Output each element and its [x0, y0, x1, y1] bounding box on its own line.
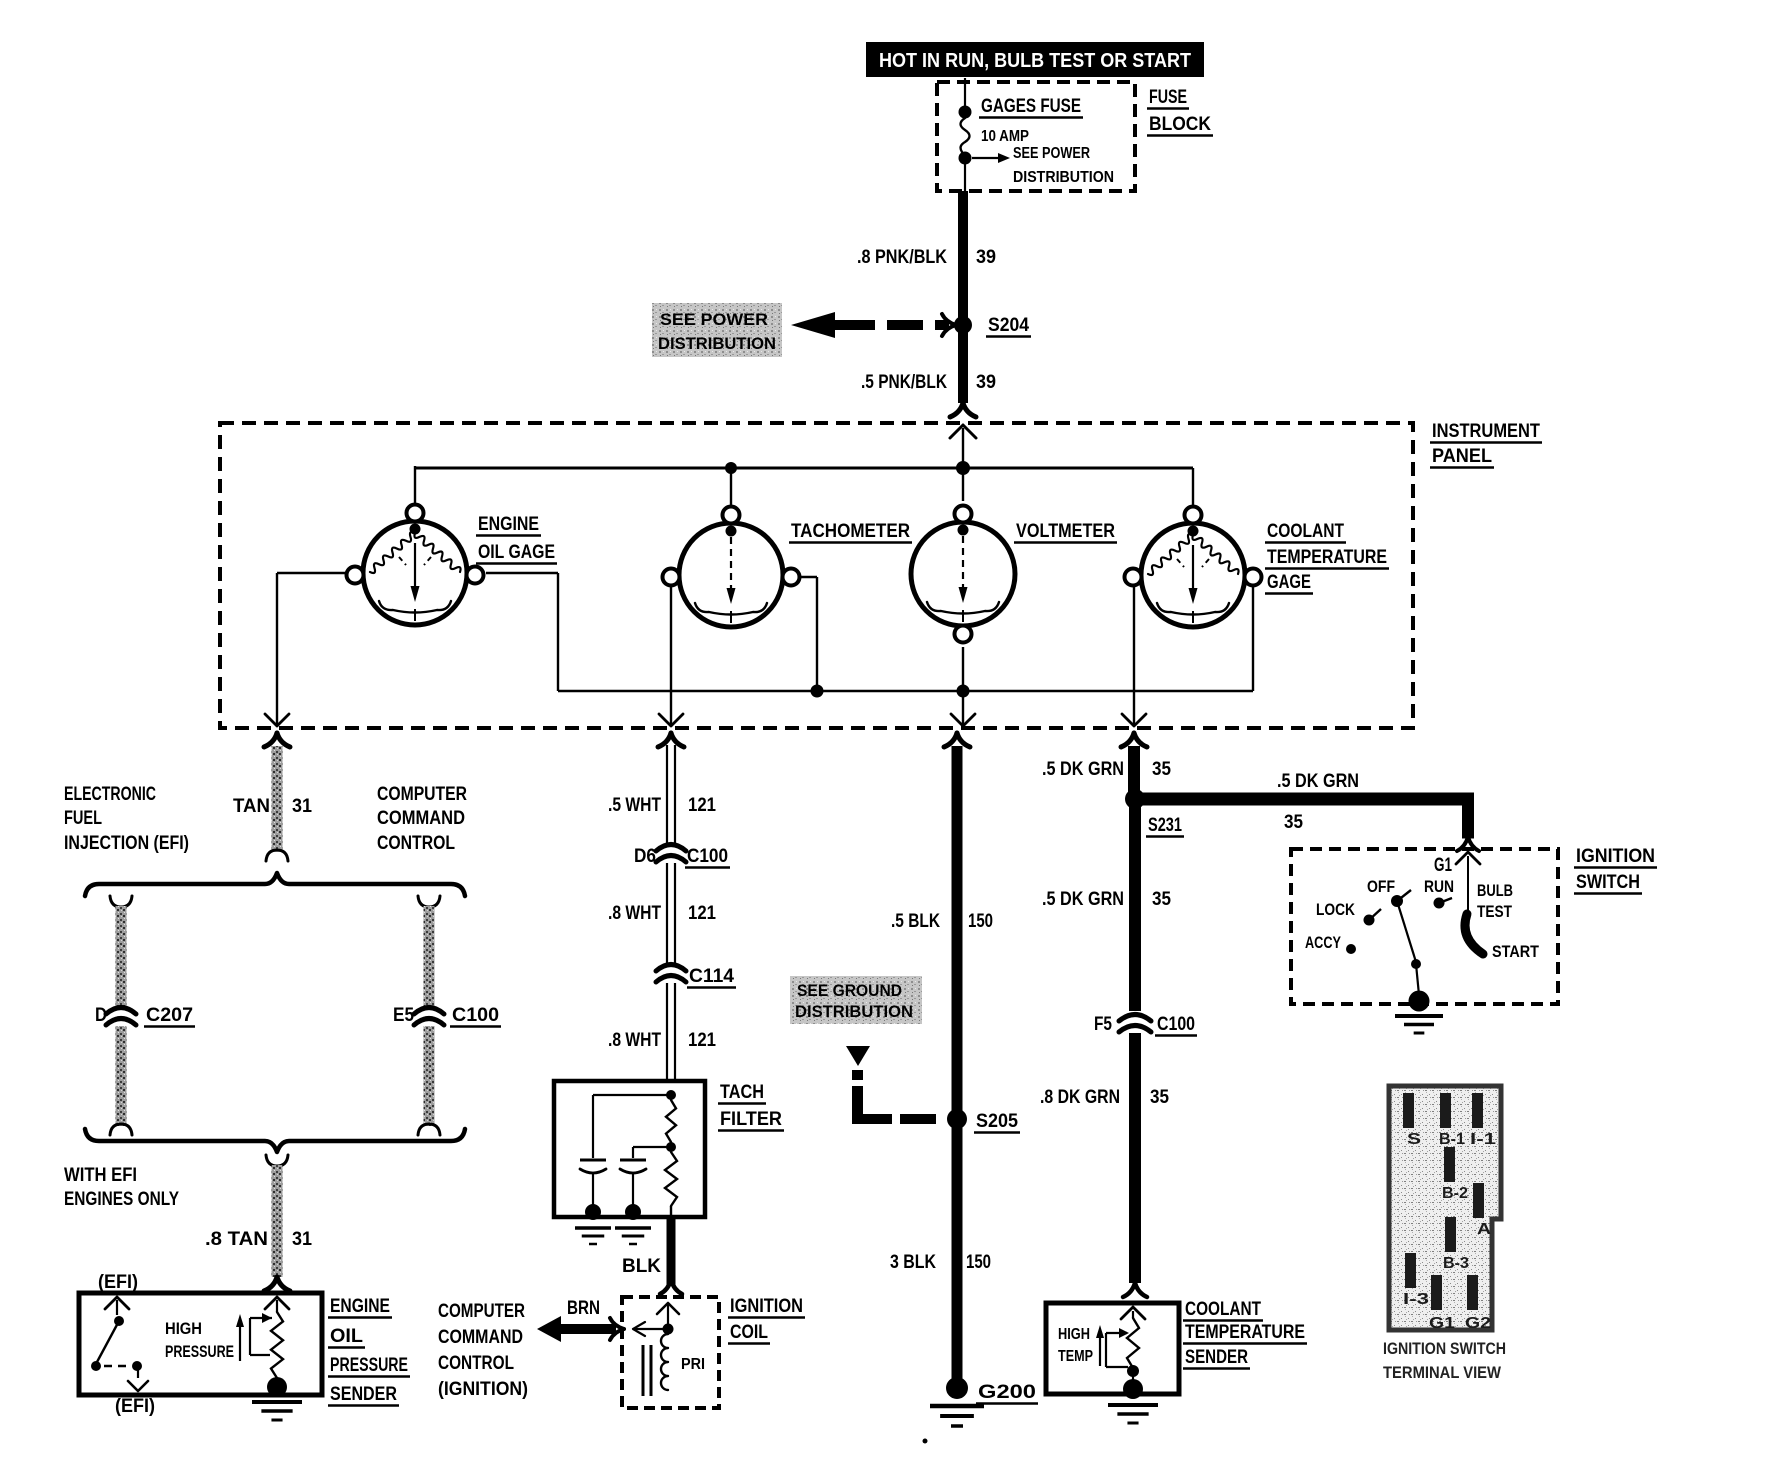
- svg-text:CONTROL: CONTROL: [438, 1353, 514, 1374]
- svg-text:.5 BLK: .5 BLK: [891, 911, 940, 932]
- svg-text:C100: C100: [452, 1005, 499, 1026]
- svg-text:ENGINE: ENGINE: [330, 1296, 390, 1317]
- svg-text:HIGH: HIGH: [165, 1319, 202, 1338]
- svg-text:INJECTION (EFI): INJECTION (EFI): [64, 833, 189, 854]
- svg-text:GAGES FUSE: GAGES FUSE: [981, 96, 1081, 117]
- svg-text:39: 39: [976, 372, 996, 393]
- svg-text:IGNITION: IGNITION: [730, 1296, 803, 1317]
- svg-text:DISTRIBUTION: DISTRIBUTION: [658, 334, 776, 353]
- svg-text:PRI: PRI: [681, 1356, 705, 1373]
- svg-text:COOLANT: COOLANT: [1267, 521, 1344, 542]
- svg-text:PRESSURE: PRESSURE: [165, 1342, 234, 1361]
- svg-text:CONTROL: CONTROL: [377, 833, 455, 854]
- svg-text:C100: C100: [687, 846, 728, 867]
- svg-text:VOLTMETER: VOLTMETER: [1016, 521, 1115, 542]
- svg-text:.5 DK GRN: .5 DK GRN: [1277, 771, 1359, 792]
- svg-text:121: 121: [688, 795, 716, 816]
- svg-text:G200: G200: [978, 1382, 1036, 1403]
- svg-text:ENGINE: ENGINE: [478, 514, 539, 535]
- svg-text:TACHOMETER: TACHOMETER: [791, 521, 910, 542]
- svg-text:.8 WHT: .8 WHT: [608, 1030, 661, 1051]
- svg-text:121: 121: [688, 1030, 716, 1051]
- svg-text:OIL: OIL: [330, 1326, 363, 1347]
- svg-text:150: 150: [966, 1252, 991, 1273]
- svg-text:IGNITION SWITCH: IGNITION SWITCH: [1383, 1339, 1506, 1358]
- svg-text:HOT IN RUN, BULB TEST OR STAR: HOT IN RUN, BULB TEST OR START: [879, 50, 1191, 72]
- svg-text:B-3: B-3: [1443, 1255, 1469, 1272]
- svg-text:I-1: I-1: [1470, 1131, 1496, 1148]
- svg-text:SWITCH: SWITCH: [1576, 872, 1640, 893]
- svg-text:INSTRUMENT: INSTRUMENT: [1432, 421, 1540, 442]
- svg-text:TAN: TAN: [233, 796, 270, 817]
- svg-text:OFF: OFF: [1367, 877, 1395, 896]
- svg-text:TERMINAL VIEW: TERMINAL VIEW: [1383, 1363, 1502, 1382]
- svg-text:F5: F5: [1094, 1014, 1112, 1035]
- svg-text:35: 35: [1152, 889, 1171, 910]
- svg-text:35: 35: [1150, 1087, 1169, 1108]
- svg-text:FUSE: FUSE: [1149, 87, 1187, 108]
- svg-text:39: 39: [976, 247, 996, 268]
- svg-text:C207: C207: [146, 1005, 193, 1026]
- svg-text:C100: C100: [1157, 1014, 1195, 1035]
- svg-text:I-3: I-3: [1403, 1291, 1429, 1308]
- svg-text:BRN: BRN: [567, 1298, 600, 1319]
- svg-text:B-1: B-1: [1439, 1131, 1465, 1148]
- svg-text:BULB: BULB: [1477, 881, 1513, 900]
- svg-text:S: S: [1407, 1131, 1421, 1148]
- svg-text:.8 PNK/BLK: .8 PNK/BLK: [857, 247, 947, 268]
- svg-text:COIL: COIL: [730, 1322, 768, 1343]
- svg-text:LOCK: LOCK: [1316, 900, 1356, 919]
- svg-text:S204: S204: [988, 315, 1029, 336]
- svg-text:G1: G1: [1429, 1315, 1455, 1332]
- svg-text:PRESSURE: PRESSURE: [330, 1355, 408, 1376]
- svg-text:ELECTRONIC: ELECTRONIC: [64, 784, 156, 805]
- svg-text:FILTER: FILTER: [720, 1109, 782, 1130]
- svg-text:.5 DK GRN: .5 DK GRN: [1042, 889, 1124, 910]
- svg-text:121: 121: [688, 903, 716, 924]
- svg-text:BLK: BLK: [622, 1256, 661, 1277]
- svg-text:TEST: TEST: [1477, 902, 1512, 921]
- svg-text:G2: G2: [1465, 1315, 1491, 1332]
- svg-text:(IGNITION): (IGNITION): [438, 1379, 528, 1400]
- svg-text:SEE GROUND: SEE GROUND: [797, 981, 902, 1000]
- svg-text:RUN: RUN: [1424, 877, 1454, 896]
- svg-text:TACH: TACH: [720, 1082, 764, 1103]
- svg-text:OIL GAGE: OIL GAGE: [478, 542, 555, 563]
- svg-text:PANEL: PANEL: [1432, 446, 1492, 467]
- svg-text:TEMPERATURE: TEMPERATURE: [1267, 547, 1387, 568]
- svg-text:.8 DK GRN: .8 DK GRN: [1040, 1087, 1120, 1108]
- svg-text:10 AMP: 10 AMP: [981, 128, 1029, 145]
- svg-text:COMPUTER: COMPUTER: [377, 784, 467, 805]
- svg-text:S231: S231: [1148, 815, 1182, 836]
- svg-text:D6: D6: [634, 846, 656, 867]
- svg-text:E5: E5: [393, 1005, 414, 1026]
- svg-text:SENDER: SENDER: [1185, 1347, 1248, 1368]
- svg-text:35: 35: [1152, 759, 1171, 780]
- svg-text:31: 31: [292, 796, 312, 817]
- svg-text:SENDER: SENDER: [330, 1384, 397, 1405]
- svg-text:COMMAND: COMMAND: [377, 808, 465, 829]
- svg-text:SEE POWER: SEE POWER: [660, 310, 768, 329]
- svg-text:DISTRIBUTION: DISTRIBUTION: [795, 1002, 913, 1021]
- svg-text:FUEL: FUEL: [64, 808, 102, 829]
- svg-text:BLOCK: BLOCK: [1149, 114, 1211, 135]
- svg-text:COMMAND: COMMAND: [438, 1327, 523, 1348]
- svg-text:WITH EFI: WITH EFI: [64, 1165, 137, 1186]
- svg-text:(EFI): (EFI): [98, 1272, 138, 1293]
- svg-text:GAGE: GAGE: [1267, 572, 1311, 593]
- svg-text:(EFI): (EFI): [115, 1396, 155, 1417]
- svg-text:TEMP: TEMP: [1058, 1348, 1093, 1365]
- svg-text:.8 WHT: .8 WHT: [608, 903, 661, 924]
- svg-text:.8 TAN: .8 TAN: [205, 1229, 268, 1250]
- svg-text:150: 150: [968, 911, 993, 932]
- svg-text:COOLANT: COOLANT: [1185, 1299, 1261, 1320]
- svg-text:.5 PNK/BLK: .5 PNK/BLK: [861, 372, 947, 393]
- svg-text:C114: C114: [689, 966, 734, 987]
- svg-text:31: 31: [292, 1229, 312, 1250]
- svg-text:ACCY: ACCY: [1305, 933, 1341, 952]
- svg-text:IGNITION: IGNITION: [1576, 846, 1655, 867]
- svg-text:COMPUTER: COMPUTER: [438, 1301, 525, 1322]
- svg-text:SEE POWER: SEE POWER: [1013, 145, 1090, 162]
- svg-text:.5 WHT: .5 WHT: [608, 795, 661, 816]
- svg-text:START: START: [1492, 942, 1540, 961]
- svg-text:3 BLK: 3 BLK: [890, 1252, 936, 1273]
- svg-text:35: 35: [1284, 812, 1303, 833]
- svg-text:HIGH: HIGH: [1058, 1326, 1090, 1343]
- svg-text:A: A: [1477, 1221, 1492, 1238]
- svg-text:B-2: B-2: [1442, 1185, 1468, 1202]
- svg-text:.5 DK GRN: .5 DK GRN: [1042, 759, 1124, 780]
- svg-text:G1: G1: [1434, 855, 1452, 876]
- svg-text:TEMPERATURE: TEMPERATURE: [1185, 1322, 1305, 1343]
- svg-text:D: D: [95, 1005, 107, 1026]
- svg-text:ENGINES ONLY: ENGINES ONLY: [64, 1189, 179, 1210]
- svg-text:S205: S205: [976, 1111, 1018, 1132]
- svg-text:DISTRIBUTION: DISTRIBUTION: [1013, 169, 1114, 186]
